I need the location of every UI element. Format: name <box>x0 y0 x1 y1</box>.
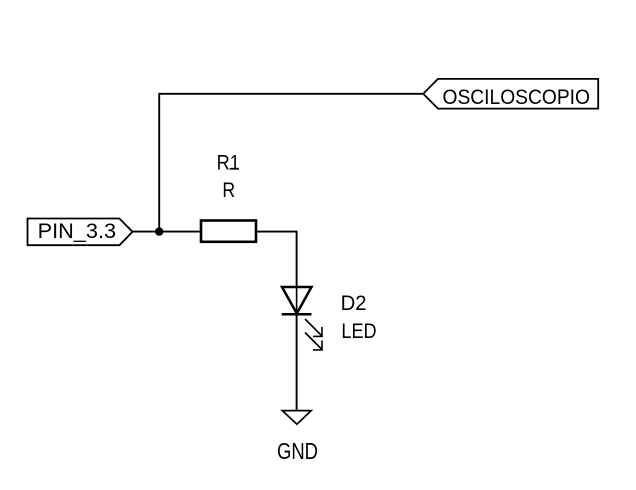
junction <box>155 227 163 235</box>
wire LED to ground <box>296 314 298 410</box>
svg-text:D2: D2 <box>341 292 367 315</box>
wire left vertical <box>158 93 160 232</box>
ground <box>282 411 311 425</box>
wire down to LED <box>296 231 298 287</box>
net label PIN_3.3 <box>28 219 133 246</box>
wire top horizontal <box>159 93 423 95</box>
net label OSCILOSCOPIO <box>423 79 598 109</box>
LED D2 <box>282 287 323 351</box>
svg-text:GND: GND <box>277 438 318 464</box>
wire from PIN_3.3 to resistor <box>133 231 200 233</box>
svg-text:OSCILOSCOPIO: OSCILOSCOPIO <box>443 86 591 109</box>
svg-text:R1: R1 <box>217 152 240 175</box>
wire resistor to corner <box>257 231 296 233</box>
svg-text:PIN_3.3: PIN_3.3 <box>38 220 117 243</box>
svg-text:LED: LED <box>341 320 376 343</box>
resistor R1 <box>201 221 256 242</box>
svg-text:R: R <box>222 179 235 202</box>
